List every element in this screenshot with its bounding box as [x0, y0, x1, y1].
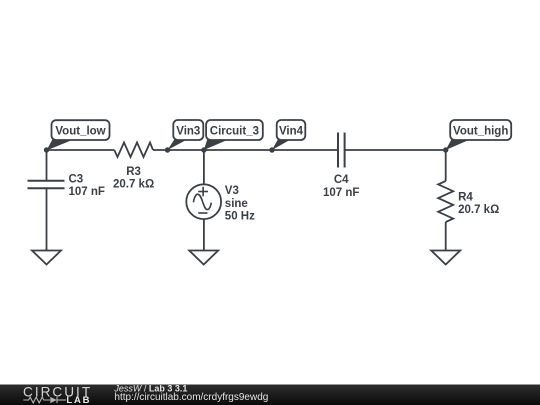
- ground: [189, 251, 218, 265]
- node Vout_low flag: [47, 120, 110, 150]
- svg-text:Circuit_3: Circuit_3: [210, 126, 259, 138]
- svg-text:107 nF: 107 nF: [323, 187, 359, 199]
- wire: [153, 149, 338, 151]
- node Vout_high flag: [446, 120, 512, 150]
- svg-text:sine: sine: [225, 198, 248, 210]
- svg-text:http://circuitlab.com/crdyfrgs: http://circuitlab.com/crdyfrgs9ewdg: [114, 392, 268, 403]
- node Vin3 flag: [168, 120, 204, 150]
- junction at node Vin4: [269, 147, 274, 152]
- svg-text:R3: R3: [126, 166, 141, 178]
- capacitor C3: [28, 150, 105, 251]
- voltage source V3: [186, 150, 255, 251]
- node Vin4 flag: [272, 120, 305, 150]
- svg-text:20.7 kΩ: 20.7 kΩ: [458, 204, 499, 216]
- svg-text:Vin3: Vin3: [176, 126, 200, 138]
- svg-text:20.7 kΩ: 20.7 kΩ: [113, 179, 154, 191]
- svg-text:C4: C4: [334, 174, 349, 186]
- junction at node Vin3: [165, 147, 170, 152]
- junction at node Vout_high: [443, 147, 448, 152]
- node Circuit_3 flag: [204, 120, 263, 150]
- resistor R3: [113, 143, 154, 191]
- svg-text:C3: C3: [69, 173, 84, 185]
- wire: [47, 149, 115, 151]
- logo waveform: [23, 397, 66, 403]
- svg-text:LAB: LAB: [66, 395, 91, 405]
- ground: [431, 251, 460, 265]
- junction at node Vout_low: [44, 147, 49, 152]
- ground: [32, 251, 61, 265]
- junction at node Circuit_3: [201, 147, 206, 152]
- wire: [345, 149, 446, 151]
- svg-text:Vout_low: Vout_low: [55, 126, 105, 138]
- svg-text:V3: V3: [225, 185, 239, 197]
- svg-text:R4: R4: [458, 191, 473, 203]
- svg-text:Vin4: Vin4: [279, 126, 304, 138]
- svg-text:Vout_high: Vout_high: [453, 126, 508, 138]
- resistor R4: [438, 150, 499, 251]
- svg-text:107 nF: 107 nF: [69, 186, 105, 198]
- svg-text:50 Hz: 50 Hz: [225, 211, 255, 223]
- capacitor C4: [323, 133, 359, 200]
